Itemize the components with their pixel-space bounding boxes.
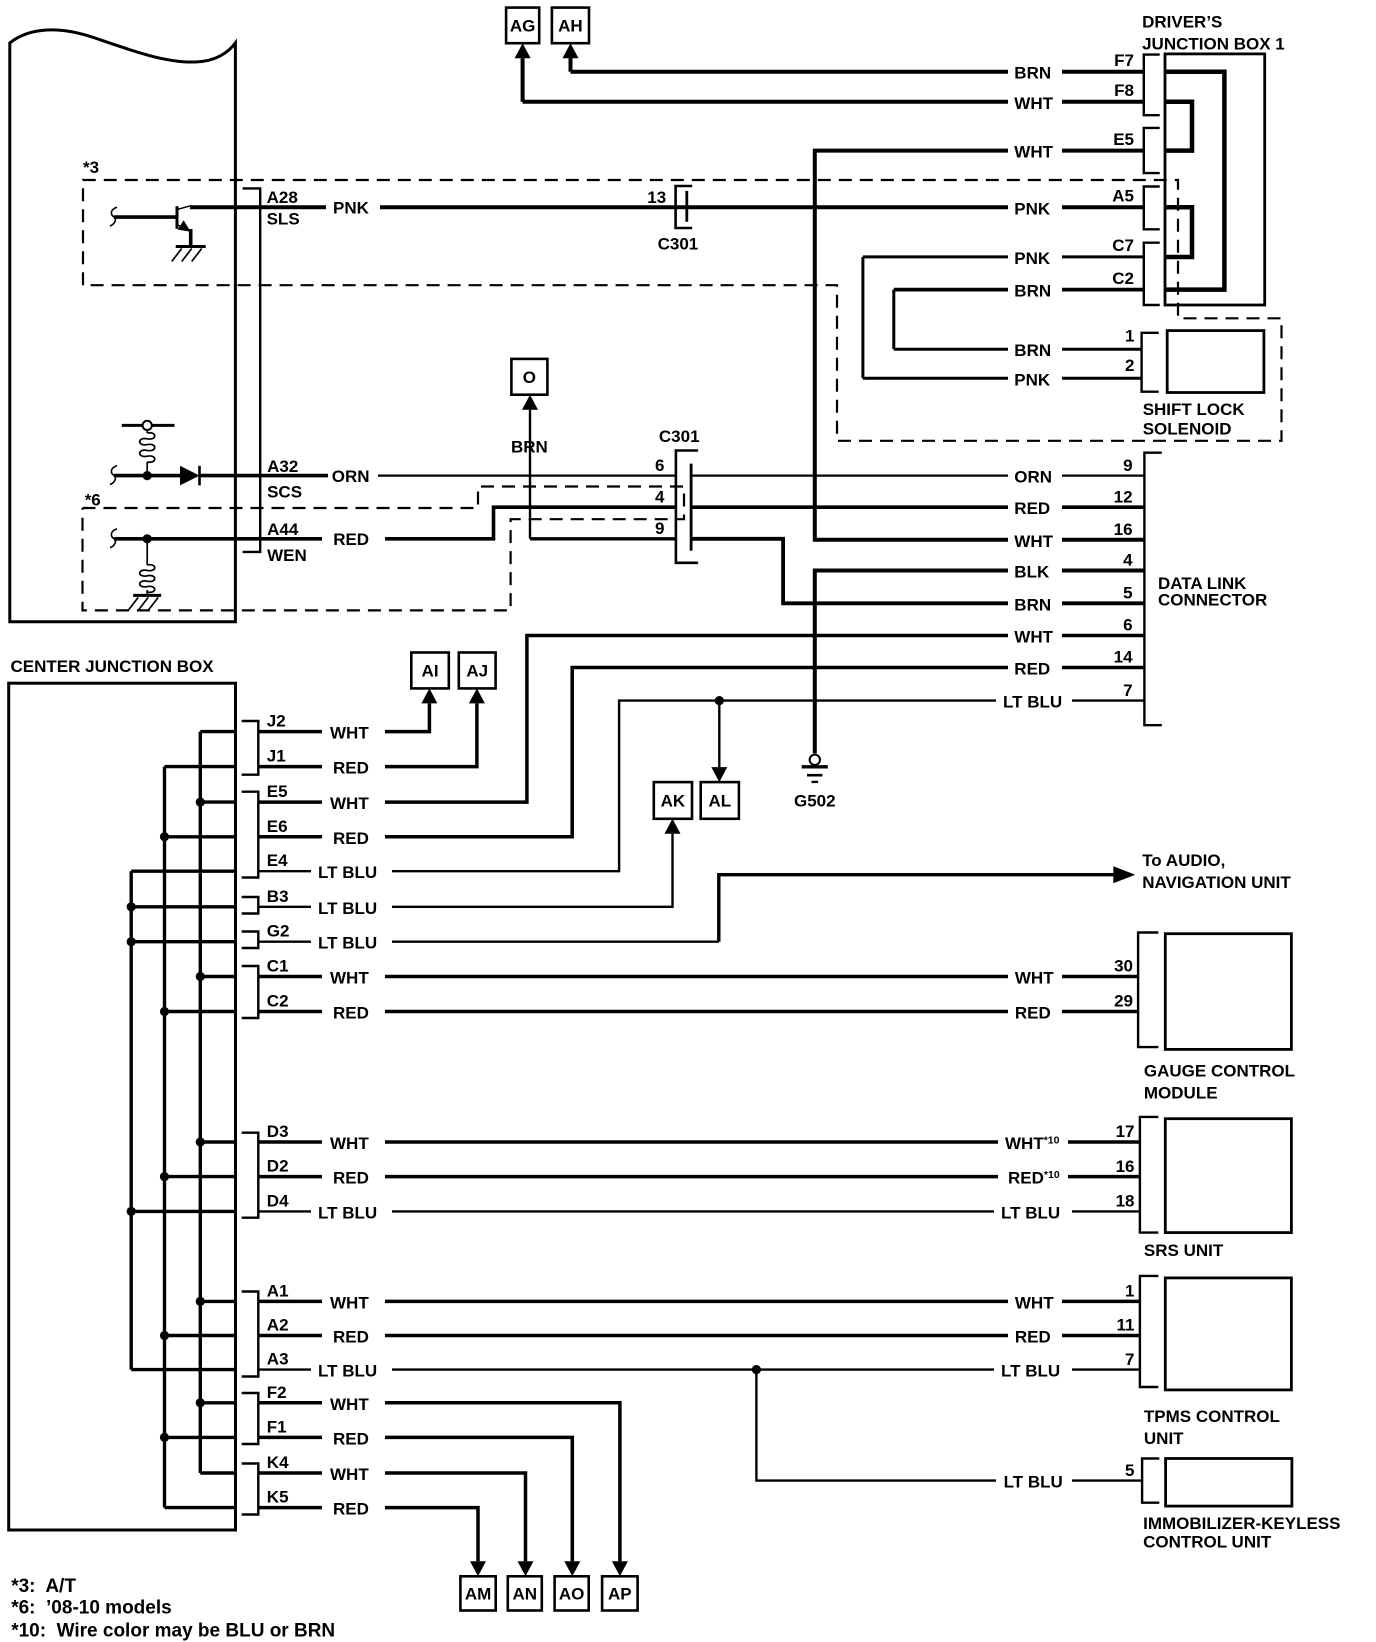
svg-text:WHT: WHT	[1015, 1293, 1054, 1312]
svg-text:30: 30	[1114, 957, 1133, 976]
svg-text:WEN: WEN	[267, 546, 307, 565]
svg-text:9: 9	[1123, 456, 1132, 475]
svg-text:AK: AK	[661, 792, 686, 811]
svg-text:F1: F1	[267, 1417, 287, 1436]
svg-text:5: 5	[1123, 584, 1132, 603]
svg-text:BRN: BRN	[1014, 282, 1051, 301]
svg-text:RED: RED	[333, 530, 369, 549]
svg-text:RED: RED	[333, 759, 369, 778]
svg-text:WHT: WHT	[330, 1134, 369, 1153]
svg-text:BRN: BRN	[511, 438, 548, 457]
svg-text:LT BLU: LT BLU	[318, 899, 377, 918]
svg-text:13: 13	[647, 188, 666, 207]
svg-text:AO: AO	[559, 1585, 585, 1604]
svg-text:*6: ’08-10 models: *6: ’08-10 models	[11, 1598, 172, 1619]
svg-text:SLS: SLS	[267, 209, 300, 228]
svg-text:LT BLU: LT BLU	[318, 1203, 377, 1222]
svg-text:D3: D3	[267, 1122, 289, 1141]
svg-text:11: 11	[1117, 1316, 1135, 1335]
svg-text:C2: C2	[1112, 269, 1134, 288]
svg-text:9: 9	[655, 519, 664, 538]
svg-text:A2: A2	[267, 1316, 289, 1335]
svg-text:F7: F7	[1114, 51, 1134, 70]
svg-text:LT BLU: LT BLU	[318, 1362, 377, 1381]
svg-text:RED: RED	[333, 1004, 369, 1023]
svg-text:G502: G502	[794, 792, 836, 811]
svg-text:A28: A28	[267, 188, 298, 207]
svg-text:D2: D2	[267, 1157, 289, 1176]
svg-text:AN: AN	[513, 1585, 538, 1604]
svg-text:1: 1	[1125, 1282, 1134, 1301]
svg-text:BRN: BRN	[1014, 595, 1051, 614]
svg-text:1: 1	[1125, 327, 1134, 346]
svg-text:K5: K5	[267, 1488, 289, 1507]
svg-text:AH: AH	[558, 17, 583, 36]
svg-text:WHT: WHT	[330, 969, 369, 988]
svg-text:J1: J1	[267, 747, 286, 766]
svg-text:MODULE: MODULE	[1144, 1084, 1218, 1103]
svg-text:TPMS CONTROL: TPMS CONTROL	[1144, 1407, 1280, 1426]
svg-text:CONTROL UNIT: CONTROL UNIT	[1143, 1533, 1272, 1552]
svg-text:PNK: PNK	[1014, 249, 1051, 268]
svg-text:4: 4	[1123, 551, 1133, 570]
svg-text:AM: AM	[465, 1585, 491, 1604]
svg-text:RED: RED	[1014, 499, 1050, 518]
svg-text:29: 29	[1114, 992, 1133, 1011]
svg-text:WHT: WHT	[1014, 94, 1053, 113]
svg-text:AG: AG	[510, 17, 536, 36]
svg-text:JUNCTION BOX 1: JUNCTION BOX 1	[1142, 35, 1285, 54]
svg-text:WHT: WHT	[1014, 628, 1053, 647]
svg-text:17: 17	[1116, 1122, 1135, 1141]
svg-text:WHT: WHT	[1014, 532, 1053, 551]
svg-text:RED: RED	[1015, 1004, 1051, 1023]
svg-text:*3: *3	[83, 158, 99, 177]
svg-text:C1: C1	[267, 957, 289, 976]
svg-text:WHT: WHT	[330, 724, 369, 743]
svg-text:A44: A44	[267, 520, 299, 539]
svg-text:LT BLU: LT BLU	[1001, 1203, 1060, 1222]
svg-text:C301: C301	[658, 235, 699, 254]
svg-text:LT BLU: LT BLU	[1004, 1473, 1063, 1492]
svg-text:E6: E6	[267, 817, 288, 836]
svg-text:PNK: PNK	[333, 199, 370, 218]
svg-text:6: 6	[655, 456, 664, 475]
svg-text:G2: G2	[267, 922, 290, 941]
svg-text:7: 7	[1123, 681, 1132, 700]
svg-text:SOLENOID: SOLENOID	[1143, 420, 1232, 439]
svg-text:WHT: WHT	[330, 1465, 369, 1484]
svg-text:A32: A32	[267, 457, 298, 476]
svg-text:WHT: WHT	[330, 794, 369, 813]
svg-text:18: 18	[1116, 1192, 1135, 1211]
svg-text:PNK: PNK	[1014, 199, 1051, 218]
svg-text:BRN: BRN	[1014, 64, 1051, 83]
svg-text:AP: AP	[608, 1585, 632, 1604]
svg-text:E5: E5	[267, 782, 288, 801]
svg-text:4: 4	[655, 487, 665, 506]
svg-text:SRS UNIT: SRS UNIT	[1144, 1241, 1224, 1260]
svg-text:IMMOBILIZER-KEYLESS: IMMOBILIZER-KEYLESS	[1143, 1514, 1340, 1533]
svg-text:F2: F2	[267, 1383, 287, 1402]
svg-text:A3: A3	[267, 1350, 289, 1369]
svg-text:B3: B3	[267, 887, 289, 906]
svg-text:J2: J2	[267, 712, 286, 731]
svg-text:C7: C7	[1112, 236, 1134, 255]
svg-text:2: 2	[1125, 356, 1134, 375]
svg-text:WHT: WHT	[1014, 143, 1053, 162]
svg-text:WHT: WHT	[330, 1293, 369, 1312]
svg-text:GAUGE CONTROL: GAUGE CONTROL	[1144, 1062, 1295, 1081]
svg-text:F8: F8	[1114, 81, 1134, 100]
svg-text:16: 16	[1114, 520, 1133, 539]
svg-text:AL: AL	[708, 792, 731, 811]
svg-text:CENTER JUNCTION BOX: CENTER JUNCTION BOX	[11, 657, 215, 676]
svg-text:NAVIGATION UNIT: NAVIGATION UNIT	[1142, 873, 1291, 892]
svg-text:UNIT: UNIT	[1144, 1429, 1184, 1448]
svg-text:To AUDIO,: To AUDIO,	[1142, 851, 1225, 870]
svg-text:*10: Wire color may be BLU or: *10: Wire color may be BLU or BRN	[11, 1621, 335, 1642]
svg-text:14: 14	[1114, 648, 1133, 667]
svg-text:7: 7	[1125, 1350, 1134, 1369]
svg-text:RED: RED	[333, 1328, 369, 1347]
svg-text:16: 16	[1116, 1157, 1135, 1176]
svg-text:WHT: WHT	[1015, 969, 1054, 988]
svg-text:LT BLU: LT BLU	[318, 934, 377, 953]
svg-text:O: O	[523, 368, 536, 387]
svg-text:RED: RED	[1015, 1328, 1051, 1347]
svg-text:SCS: SCS	[267, 483, 302, 502]
svg-text:LT BLU: LT BLU	[1003, 693, 1062, 712]
svg-text:A1: A1	[267, 1281, 289, 1300]
svg-text:D4: D4	[267, 1191, 289, 1210]
svg-text:C2: C2	[267, 992, 289, 1011]
svg-text:SHIFT LOCK: SHIFT LOCK	[1143, 400, 1246, 419]
svg-text:LT BLU: LT BLU	[318, 863, 377, 882]
svg-text:6: 6	[1123, 616, 1132, 635]
svg-text:CONNECTOR: CONNECTOR	[1158, 590, 1267, 609]
svg-text:DRIVER’S: DRIVER’S	[1142, 13, 1222, 32]
svg-text:LT BLU: LT BLU	[1001, 1362, 1060, 1381]
svg-text:RED: RED	[333, 829, 369, 848]
svg-text:ORN: ORN	[1014, 468, 1052, 487]
svg-text:AJ: AJ	[466, 662, 488, 681]
svg-text:RED: RED	[333, 1429, 369, 1448]
svg-text:*6: *6	[85, 491, 101, 510]
svg-text:AI: AI	[422, 662, 439, 681]
svg-text:PNK: PNK	[1014, 370, 1051, 389]
svg-text:A5: A5	[1112, 187, 1134, 206]
svg-text:5: 5	[1125, 1461, 1134, 1480]
svg-text:K4: K4	[267, 1453, 289, 1472]
svg-text:*3: A/T: *3: A/T	[11, 1576, 76, 1597]
svg-text:12: 12	[1114, 487, 1133, 506]
svg-text:E4: E4	[267, 851, 288, 870]
svg-text:RED: RED	[333, 1500, 369, 1519]
svg-text:WHT: WHT	[330, 1395, 369, 1414]
svg-text:BRN: BRN	[1014, 341, 1051, 360]
svg-text:RED: RED	[1014, 660, 1050, 679]
svg-text:E5: E5	[1113, 130, 1134, 149]
svg-text:ORN: ORN	[332, 467, 370, 486]
svg-text:BLK: BLK	[1014, 563, 1050, 582]
svg-text:C301: C301	[659, 427, 700, 446]
svg-text:RED: RED	[333, 1169, 369, 1188]
